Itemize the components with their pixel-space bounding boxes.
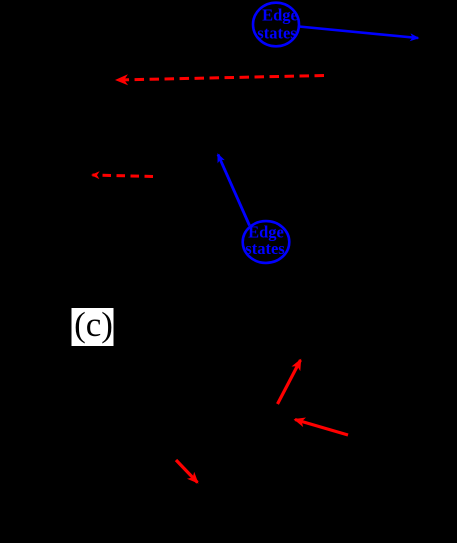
red solid arrow pointing up-right (278, 360, 301, 404)
panel label box (c) (72, 308, 114, 346)
red solid arrow pointing down-right (176, 460, 198, 483)
callout circle U2 (lower "Edge states") (243, 221, 290, 263)
svg-text:states: states (257, 24, 297, 43)
red solid arrow pointing left (295, 420, 348, 436)
svg-text:states: states (245, 239, 285, 258)
blue arrow from top circle to right (299, 27, 418, 39)
red dashed arrow (short, pointing left) (93, 175, 154, 177)
callout circle U1 (top "Edge states") (253, 3, 299, 47)
svg-text:(c): (c) (74, 305, 113, 344)
svg-text:Edge: Edge (262, 6, 298, 25)
blue arrow from lower circle pointing up-left (218, 155, 250, 226)
red dashed arrow (long, pointing left) (117, 76, 324, 81)
